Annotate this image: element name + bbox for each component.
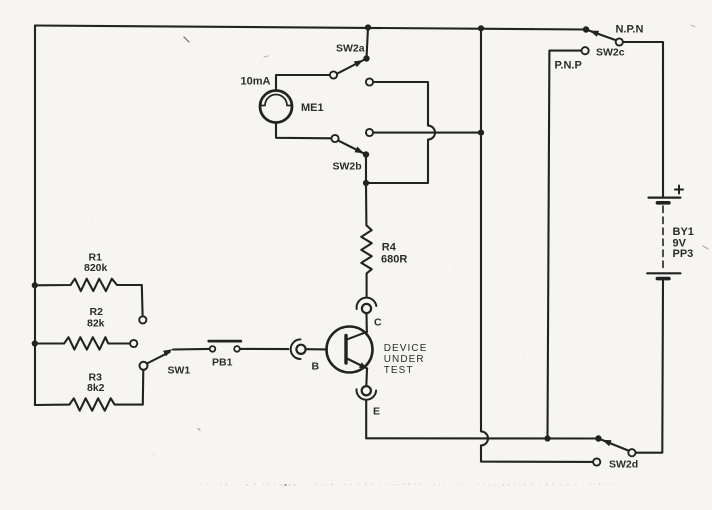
node SW2d common dot (595, 435, 601, 441)
wire C to transistor (365, 313, 367, 332)
wire E down to bottom rail (365, 401, 367, 438)
svg-text:C: C (374, 317, 382, 329)
wire SW2a to meter (276, 75, 330, 90)
battery BY1 (647, 186, 683, 279)
clip arc at B (291, 339, 301, 359)
wire middle contact to x=481 (366, 129, 373, 136)
svg-text:10mA: 10mA (241, 75, 271, 87)
svg-text:R2: R2 (90, 306, 104, 318)
resistor R4 (361, 183, 371, 297)
wire left rail (34, 26, 36, 406)
switch SW2d lower throw contact (593, 458, 600, 465)
svg-text:680R: 680R (381, 253, 407, 265)
node terminal C (362, 304, 371, 313)
meter ME1 (260, 91, 292, 123)
wire PB1 to B (240, 348, 288, 350)
svg-text:SW2d: SW2d (609, 459, 638, 471)
node R2 contact (130, 340, 137, 347)
resistor R2 (35, 337, 130, 349)
resistor R1 (35, 279, 143, 316)
node junction x=481 mid (478, 130, 484, 136)
resistor R3 (35, 370, 144, 411)
transistor Q1 (device under test) (327, 327, 373, 373)
svg-text:TEST: TEST (384, 365, 414, 376)
node terminal B (296, 345, 305, 354)
switch SW2d (598, 439, 635, 457)
svg-text:PP3: PP3 (673, 248, 694, 260)
wire transistor emitter down (365, 369, 368, 386)
wire base lead (306, 348, 327, 350)
switch SW2a (330, 55, 370, 78)
wire bottom rail (366, 437, 595, 439)
svg-text:UNDER: UNDER (384, 354, 425, 365)
node top junction at x=481 (478, 25, 484, 31)
switch SW2c (583, 26, 623, 45)
node terminal E (362, 386, 371, 395)
fleck (284, 484, 286, 486)
wire battery - to SW2d (636, 280, 663, 453)
svg-text:SW2a: SW2a (336, 42, 365, 54)
wire vertical x=481 with hop over bottom rail (481, 28, 593, 462)
svg-text:8k2: 8k2 (87, 382, 105, 394)
node junction left rail R2 (32, 340, 38, 346)
wire SW2b common to junction (365, 155, 367, 184)
clip arc at C (357, 298, 377, 309)
svg-text:PB1: PB1 (212, 357, 233, 369)
svg-text:SW1: SW1 (168, 365, 191, 377)
wire top rail (35, 26, 586, 30)
node bottom junction PNP line (544, 435, 550, 441)
wire P.N.P vertical (548, 51, 582, 439)
wire bypass bracket with hop (366, 78, 373, 85)
svg-text:DEVICE: DEVICE (384, 343, 428, 354)
pushbutton PB1 (209, 341, 241, 352)
svg-text:820k: 820k (84, 262, 108, 274)
svg-text:R4: R4 (382, 242, 397, 254)
clip arc at E (356, 389, 376, 399)
wire SW1 to PB1 (173, 348, 210, 351)
svg-text:N.P.N: N.P.N (616, 24, 644, 36)
node R1 contact (139, 316, 146, 323)
switch SW1 (140, 349, 173, 370)
node junction under SW2b (363, 180, 369, 186)
wire SW2c to battery + (623, 42, 663, 197)
svg-text:E: E (373, 406, 380, 418)
svg-text:BY1: BY1 (673, 226, 694, 238)
wire SW2a common drop (367, 28, 369, 59)
svg-text:SW2b: SW2b (333, 160, 362, 172)
svg-text:SW2c: SW2c (596, 46, 625, 58)
wire meter to SW2b (276, 123, 331, 139)
node top junction at SW2a (365, 24, 371, 30)
switch SW2c P.N.P contact (582, 47, 589, 54)
svg-text:ME1: ME1 (301, 102, 324, 114)
svg-text:82k: 82k (87, 318, 105, 330)
switch SW2b (331, 135, 369, 158)
node junction left rail R1 (32, 282, 38, 288)
svg-text:P.N.P: P.N.P (555, 59, 582, 71)
svg-text:B: B (312, 360, 320, 372)
